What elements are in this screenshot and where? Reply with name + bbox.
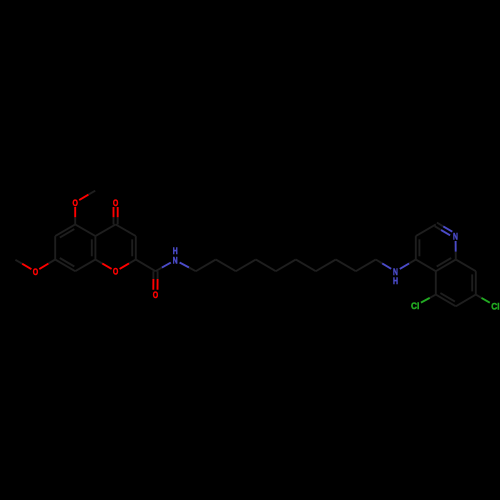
- bond C2-amide C: [136, 260, 156, 272]
- amide C=O double bond: [153, 271, 157, 290]
- atom label N (amide NH): [173, 255, 178, 266]
- ring fusion bond C4a=C8a quinoline: [436, 258, 456, 271]
- bond O5-CH3: [79, 191, 95, 200]
- bond O7-C7: [39, 260, 55, 270]
- ketone C4=O double bond: [114, 207, 118, 224]
- atom label O (7-OMe): [33, 266, 38, 277]
- svg-text:N: N: [453, 230, 458, 241]
- ring bond C4a-C5: [75, 224, 95, 236]
- ring bond C8-C8a: [75, 260, 95, 272]
- ring bond C3=C4 quinoline: [416, 236, 420, 259]
- svg-text:H: H: [393, 276, 398, 286]
- ring bond C4-C4a quinoline: [416, 260, 436, 272]
- ring bond O1-C8a: [95, 260, 111, 269]
- bond O7-CH3: [15, 260, 31, 269]
- chain bond 5: [276, 260, 296, 272]
- svg-text:O: O: [33, 266, 38, 277]
- svg-text:H: H: [173, 246, 178, 256]
- chain bond 2: [216, 260, 236, 272]
- ring bond C2=C3: [132, 236, 136, 259]
- ring bond C5=C6: [55, 224, 75, 237]
- ring bond C4-C4a: [95, 224, 115, 236]
- chain bond 9: [356, 260, 376, 272]
- atom label O (ketone): [113, 197, 118, 208]
- H label on amine N (below): [393, 276, 398, 286]
- svg-text:O: O: [113, 197, 118, 208]
- ring fusion bond C4a=C8a: [92, 236, 96, 259]
- chain bond 4: [256, 260, 276, 272]
- chain bond 7: [316, 260, 336, 272]
- svg-text:Cl: Cl: [411, 300, 419, 311]
- chain bond 8: [336, 260, 356, 272]
- ring bond C8-C8a quinoline: [456, 260, 476, 272]
- svg-text:Cl: Cl: [491, 300, 499, 311]
- ring bond C6-C7: [54, 236, 56, 259]
- svg-text:O: O: [73, 197, 78, 208]
- chain bond 6: [296, 260, 316, 272]
- ring bond C7=C8: [55, 258, 75, 271]
- chain bond 1: [196, 260, 216, 272]
- bond C7-Cl: [476, 295, 490, 303]
- atom label O (amide): [153, 289, 158, 300]
- bond NH-C4 quinoline: [400, 260, 416, 269]
- atom label Cl (C7): [491, 300, 499, 311]
- atom label O (5-OMe): [73, 197, 78, 208]
- atom label N (quinoline): [453, 230, 458, 241]
- amide C-N bond: [156, 263, 171, 272]
- ring bond C3-C4: [116, 224, 136, 236]
- ring bond C5=C6 quinoline: [436, 293, 456, 306]
- bond N-CH2 chain start: [180, 263, 196, 272]
- chain bond 3: [236, 260, 256, 272]
- ring bond C6-C7 quinoline: [456, 295, 476, 307]
- bond C5-Cl: [421, 295, 436, 303]
- svg-text:O: O: [153, 289, 158, 300]
- atom label N (amine NH): [393, 266, 398, 277]
- ring bond C2-O1: [120, 260, 136, 269]
- ring bond C4a-C5 quinoline: [435, 271, 437, 294]
- ring bond C2=N1 quinoline: [435, 223, 453, 236]
- bond chain end-NH: [376, 260, 391, 269]
- ring bond C2-C3 quinoline: [416, 224, 436, 236]
- bond C5-O5: [74, 207, 76, 224]
- atom label O (ring O1): [113, 266, 118, 277]
- ring bond C7=C8 quinoline: [472, 271, 476, 294]
- atom label Cl (C5): [411, 300, 419, 311]
- svg-text:O: O: [113, 266, 118, 277]
- ring bond N1-C8a quinoline: [455, 241, 457, 260]
- H label on amide N (above): [173, 246, 178, 256]
